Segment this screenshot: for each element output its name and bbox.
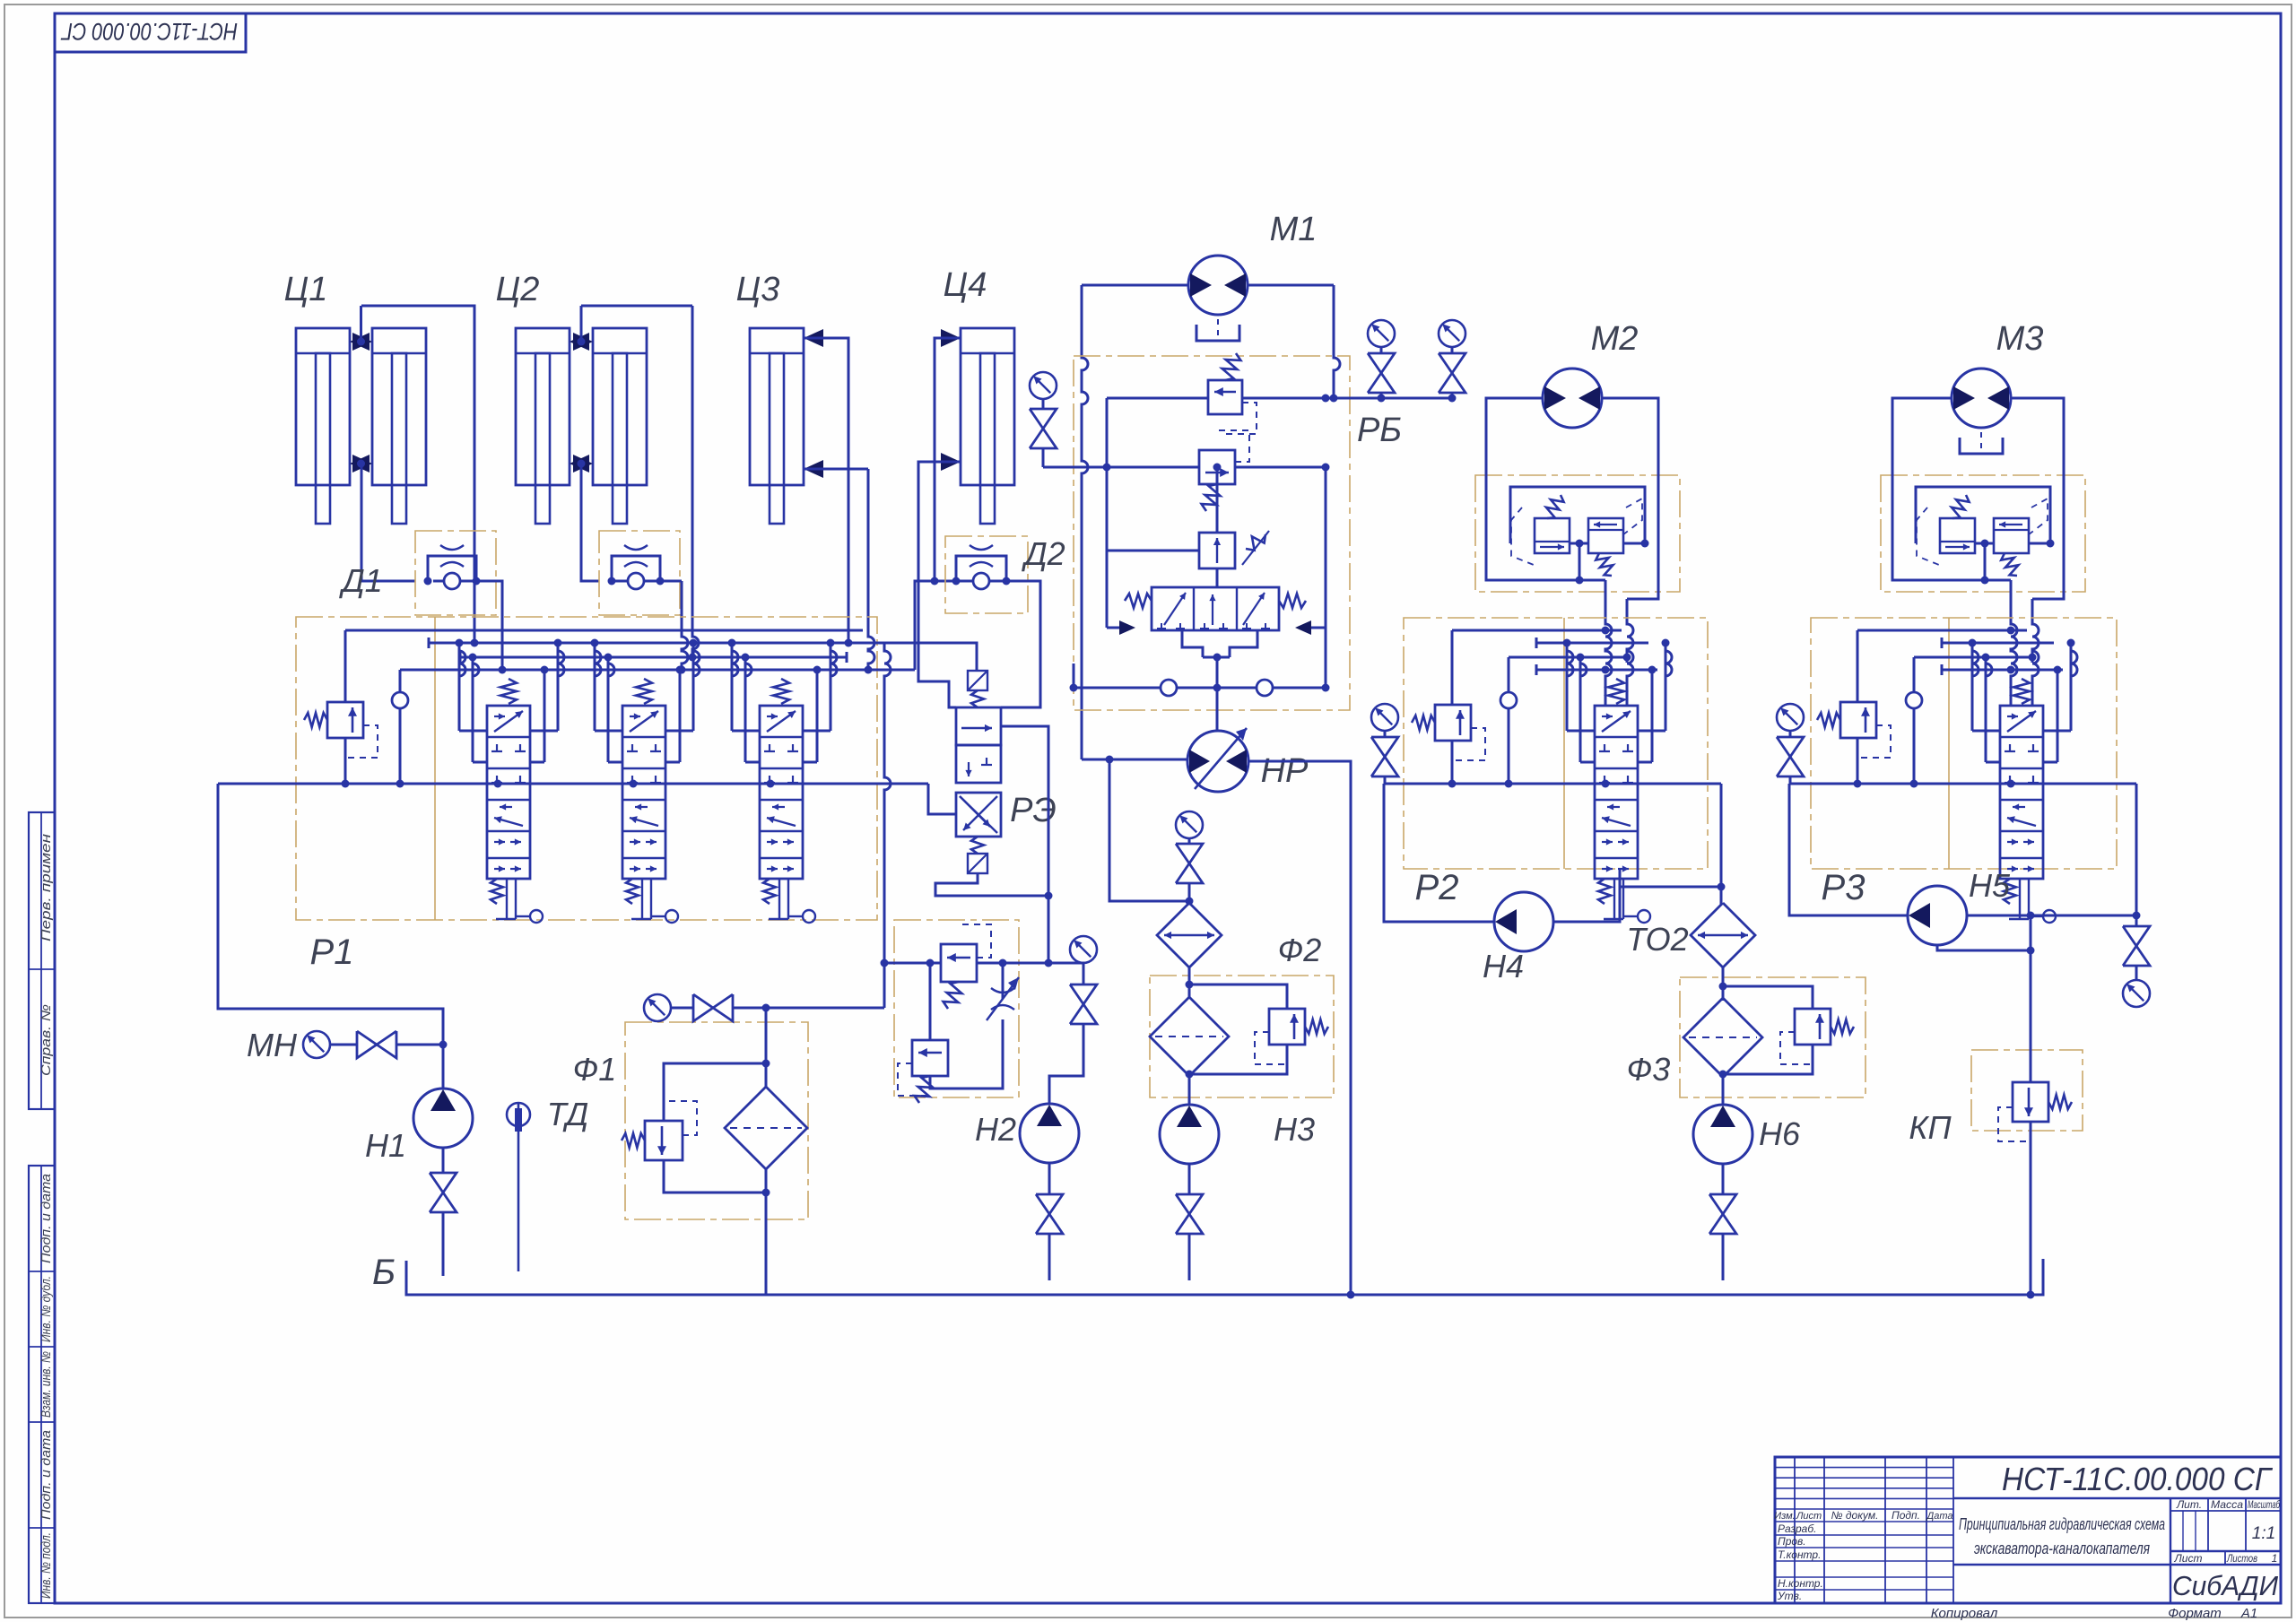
svg-text:ТД: ТД — [547, 1096, 589, 1132]
pump Н1 — [413, 1089, 473, 1148]
Р2 drain to ТО2 — [1620, 868, 1721, 887]
wire НР left loop — [1081, 759, 1083, 761]
bypass unit enclosure — [894, 920, 1019, 1097]
РБ valve springs — [1125, 594, 1152, 608]
wire Ц2 bottom to throttle-check — [581, 464, 599, 581]
gauge test point — [2123, 980, 2150, 1007]
Н6 suction valve — [1709, 1194, 1736, 1214]
block РБ enclosure — [1074, 356, 1350, 710]
wire М3 right loop — [2010, 398, 2064, 599]
spool stack Р3 — [2000, 706, 2043, 879]
svg-text:Дата: Дата — [1925, 1511, 1952, 1522]
РБ bottom check line — [1074, 687, 1161, 690]
М1 drain bracket — [1196, 325, 1239, 341]
svg-text:Ф3: Ф3 — [1627, 1051, 1671, 1088]
spool stack P1 section 2 — [622, 706, 665, 879]
РБ line 2 — [1043, 466, 1199, 469]
pump Н2 — [1020, 1104, 1079, 1163]
РБ 3-position valve — [1152, 587, 1279, 630]
РБ line 1 — [1107, 397, 1208, 400]
svg-text:Масса: Масса — [2211, 1498, 2243, 1511]
svg-text:Инв. № дубл.: Инв. № дубл. — [39, 1276, 54, 1342]
svg-text:Т.контр.: Т.контр. — [1778, 1548, 1821, 1561]
svg-text:КП: КП — [1909, 1109, 1952, 1146]
РБ left inner vertical — [1107, 398, 1199, 551]
svg-text:Н5: Н5 — [1969, 867, 2011, 904]
wire НР right to tank — [1248, 761, 1351, 1295]
bypass relief Ф1 — [664, 1063, 766, 1121]
gauge Р3 line — [1777, 704, 1804, 731]
svg-text:НСТ-11С.00.000 СГ: НСТ-11С.00.000 СГ — [60, 18, 238, 45]
wire H2 drain to Ф1 — [883, 963, 886, 1008]
svg-text:МН: МН — [247, 1027, 298, 1063]
svg-text:Масштаб: Масштаб — [2248, 1498, 2281, 1511]
drain line y1074 — [884, 962, 941, 965]
svg-text:Принципиальная гидравлическая: Принципиальная гидравлическая схема — [1959, 1515, 2165, 1533]
svg-text:№ докум.: № докум. — [1831, 1509, 1879, 1522]
svg-text:Ф2: Ф2 — [1278, 932, 1322, 968]
wire to P1 bus from Ц2 check — [680, 580, 682, 583]
cylinder Ц1 right barrel — [372, 328, 426, 485]
svg-text:Инв. № подл.: Инв. № подл. — [39, 1532, 54, 1599]
valve block Р3 enclosure — [1811, 618, 2117, 869]
cylinder Ц2 bottom port arrows — [570, 455, 589, 473]
side stamp group 2 — [29, 1166, 55, 1603]
svg-text:НСТ-11С.00.000 СГ: НСТ-11С.00.000 СГ — [2002, 1461, 2273, 1497]
shutoff РБ left — [1030, 409, 1057, 429]
wire L1 to РЭ top — [901, 643, 977, 671]
pump Н4 — [1494, 892, 1553, 951]
filter unit Ф3 enclosure — [1680, 977, 1865, 1097]
svg-text:Справ. №: Справ. № — [39, 1004, 54, 1076]
wire РЭ bottom drain — [935, 873, 1048, 963]
filter Ф1 diamond — [725, 1087, 807, 1169]
gauge top 2 — [1439, 320, 1465, 347]
svg-text:Б: Б — [372, 1253, 396, 1292]
svg-text:Р2: Р2 — [1415, 868, 1459, 907]
relief valve Р2 — [1435, 705, 1471, 741]
main pressure line P1 — [218, 783, 928, 785]
svg-text:Взам. инв. №: Взам. инв. № — [39, 1351, 54, 1418]
wire НР top from РБ — [1216, 704, 1219, 731]
svg-text:1:1: 1:1 — [2252, 1524, 2275, 1543]
wire Ц3 top port — [804, 338, 848, 630]
shutoff Р2 line — [1371, 737, 1398, 757]
shutoff top 2 — [1439, 353, 1465, 373]
wire РЭ right port drain — [1001, 726, 1048, 896]
svg-text:Н3: Н3 — [1274, 1111, 1315, 1148]
side stamp group 1 — [29, 812, 55, 1109]
pump Н5 — [1908, 886, 1967, 945]
drain from P1 L1 — [884, 643, 891, 963]
cylinder Ц2 top port arrows — [570, 333, 589, 351]
cylinder Ц1 bottom port arrows — [350, 455, 370, 473]
motor М2 — [1543, 369, 1602, 428]
thermometer ТД — [507, 1103, 530, 1126]
tank line Б — [406, 1259, 2043, 1295]
svg-text:Д2: Д2 — [1021, 535, 1065, 572]
svg-text:М3: М3 — [1996, 320, 2044, 358]
wire М2 right loop — [1601, 398, 1658, 599]
svg-text:А1: А1 — [2240, 1606, 2257, 1621]
svg-text:Ц3: Ц3 — [736, 271, 780, 308]
РБ valve pilot triangles — [1119, 620, 1135, 635]
heat exchanger ТО2 — [1691, 903, 1755, 967]
cylinder Ц2 right barrel — [593, 328, 647, 485]
gauge МН — [303, 1031, 330, 1058]
svg-text:Ц4: Ц4 — [944, 266, 987, 304]
P1 bus L1 — [428, 638, 430, 648]
svg-text:Формат: Формат — [2168, 1606, 2222, 1621]
spool stack P1 section 3 — [760, 706, 803, 879]
svg-text:Р3: Р3 — [1822, 868, 1865, 907]
filter Ф3 diamond — [1722, 967, 1725, 1001]
brake valve unit of М3 — [1881, 475, 2085, 592]
wire М3 loop to Р3 port A — [1985, 579, 2011, 582]
cylinder Ц3 — [750, 328, 804, 485]
spool stack Р2 — [1595, 706, 1638, 879]
svg-text:Утв.: Утв. — [1777, 1590, 1802, 1602]
shutoff Р3 line — [1777, 737, 1804, 757]
shutoff top 1 — [1368, 353, 1395, 373]
H3 suction valve — [1176, 1194, 1203, 1214]
svg-text:Д1: Д1 — [338, 562, 382, 599]
pump Н6 — [1693, 1105, 1752, 1164]
Р2 buses — [1452, 629, 1622, 632]
wire Н5 right / test point — [1966, 915, 2136, 917]
shutoff valve МН — [357, 1031, 377, 1058]
wire Д2 to РЭ right — [1001, 581, 1040, 707]
title block — [1775, 1457, 2281, 1603]
wire L3 to Д2 — [915, 581, 956, 670]
motor М3 — [1952, 369, 2011, 428]
svg-text:Н2: Н2 — [975, 1111, 1016, 1148]
gauge H2 — [1070, 936, 1097, 963]
wire H1 output — [218, 784, 443, 1089]
wire Р3 P to test point — [2135, 784, 2138, 915]
valve block Р1 enclosure — [296, 617, 877, 920]
wire Р3 drain lower — [1937, 945, 2031, 950]
filter unit Ф2 enclosure — [1150, 976, 1334, 1097]
svg-text:Н4: Н4 — [1483, 948, 1524, 984]
relief unit КП enclosure — [1971, 1050, 2083, 1131]
throttle-check under Ц2 — [599, 531, 680, 615]
svg-text:СибАДИ: СибАДИ — [2172, 1570, 2279, 1601]
bypass relief Ф3 — [1723, 986, 1813, 1009]
top-left stamp — [55, 13, 246, 52]
РЭ solenoid top — [968, 671, 987, 690]
wire Ц4 top drop — [935, 338, 961, 581]
wire М1 left loop — [1082, 284, 1188, 287]
svg-text:1: 1 — [2272, 1552, 2278, 1565]
filter unit Ф1 enclosure — [625, 1022, 808, 1219]
svg-text:Н1: Н1 — [365, 1127, 406, 1164]
wire М1 right — [1248, 284, 1334, 287]
shutoff НР line — [1176, 844, 1203, 863]
gauge top 1 — [1368, 320, 1395, 347]
svg-text:Листов: Листов — [2226, 1552, 2257, 1565]
svg-text:Изм.: Изм. — [1774, 1511, 1795, 1522]
wire Ц1 top to P1 drop — [361, 306, 474, 643]
adjustable throttle — [991, 988, 1014, 993]
wire М2 left loop — [1486, 398, 1579, 580]
М3 drain bracket — [1960, 438, 2003, 454]
valve block Р2 enclosure — [1404, 618, 1708, 869]
gauge Ф1 line — [644, 994, 671, 1021]
P1 bus L0 — [345, 629, 863, 632]
cylinder Ц4 — [961, 328, 1014, 485]
svg-text:Н6: Н6 — [1759, 1115, 1801, 1152]
РЭ spring bottom — [971, 837, 984, 854]
motor М1 — [1188, 256, 1248, 315]
svg-text:М2: М2 — [1591, 320, 1639, 358]
P1 bus L2 — [459, 652, 462, 663]
svg-text:ТО2: ТО2 — [1626, 921, 1688, 958]
svg-text:Разраб.: Разраб. — [1778, 1522, 1816, 1535]
gauge Р2 line — [1371, 704, 1398, 731]
wire М3 left loop — [1892, 398, 1985, 580]
svg-text:экскаватора-каналокапателя: экскаватора-каналокапателя — [1974, 1540, 2150, 1557]
cylinder Ц2 left barrel — [516, 328, 570, 485]
cylinder Ц1 top port arrows — [350, 333, 370, 351]
svg-text:Лит.: Лит. — [2176, 1498, 2202, 1511]
pressure line Р2 — [1385, 783, 1721, 785]
wire Д1 to P1 bus — [484, 581, 502, 670]
check valve Р2 — [1500, 692, 1517, 708]
wire Н4 output — [1384, 784, 1495, 922]
relief valve КП — [2030, 915, 2032, 1082]
РБ relief 1 — [1208, 380, 1242, 414]
svg-text:Подп. и дата: Подп. и дата — [39, 1174, 54, 1263]
svg-text:Р1: Р1 — [310, 932, 354, 972]
check valve Р3 — [1906, 692, 1922, 708]
svg-text:Лист: Лист — [2174, 1552, 2203, 1565]
РБ valve bottom ports — [1182, 630, 1203, 657]
wire М2 loop to Р2 port A — [1579, 579, 1605, 582]
svg-text:Копировал: Копировал — [1931, 1606, 1998, 1621]
bypass relief Ф2 — [1189, 984, 1287, 1009]
Р3 buses — [1857, 629, 2027, 632]
wire P line to РЭ — [928, 784, 956, 814]
svg-text:Подп. и дата: Подп. и дата — [39, 1430, 54, 1520]
svg-text:Ц1: Ц1 — [284, 271, 328, 308]
wire Р2 to ТО2 — [1720, 784, 1723, 905]
wire Н5 output — [1789, 784, 1909, 915]
shutoff Ф1 line — [693, 994, 713, 1021]
relief bypass lower — [929, 963, 932, 1040]
heat exchanger ТО1 — [1157, 903, 1222, 967]
throttle-check Д2 — [945, 536, 1028, 613]
H1 suction + valve — [442, 1148, 445, 1173]
check valve P1 — [392, 692, 408, 708]
shutoff test point — [2123, 926, 2150, 946]
РБ relief 2 — [1199, 450, 1235, 484]
РБ valve center ports — [1216, 568, 1219, 587]
РБ flow control valve — [1199, 533, 1235, 568]
svg-text:Пров.: Пров. — [1778, 1535, 1806, 1548]
brake valve unit of М2 — [1475, 475, 1680, 592]
variable pump НР — [1187, 731, 1248, 792]
svg-text:Ф1: Ф1 — [573, 1051, 617, 1088]
relief valve P1 — [327, 702, 363, 738]
throttle-check Д1 — [415, 531, 496, 615]
wire Ц2 top to P1 drop — [581, 305, 692, 308]
pump Н3 — [1160, 1105, 1219, 1164]
H2 suction valve — [1036, 1194, 1063, 1214]
relief valve Р3 — [1840, 702, 1876, 738]
svg-text:НР: НР — [1261, 752, 1309, 790]
wire Ц3 bottom port — [804, 468, 868, 471]
wire Н4 right — [1552, 887, 1620, 922]
svg-text:Перв. примен: Перв. примен — [39, 834, 54, 941]
svg-text:Н.контр.: Н.контр. — [1778, 1577, 1823, 1590]
svg-text:М1: М1 — [1270, 211, 1318, 248]
svg-text:Лист: Лист — [1796, 1511, 1822, 1522]
valve РЭ — [956, 707, 1001, 745]
svg-text:РБ: РБ — [1357, 412, 1402, 449]
svg-text:Подп.: Подп. — [1892, 1509, 1920, 1522]
wire Ц4 bottom drop — [918, 462, 961, 707]
wire Ц1 bottom to Д1 — [361, 464, 415, 581]
gauge РБ left — [1030, 372, 1057, 399]
spool stack P1 section 1 — [487, 706, 530, 879]
filter Ф2 diamond — [1188, 967, 1191, 999]
P1 bus L3 — [400, 669, 915, 672]
pressure line Р3 — [1790, 783, 2136, 785]
РБ line1 extension right — [1326, 397, 1452, 400]
relief bypass upper — [941, 944, 977, 982]
svg-text:Ц2: Ц2 — [496, 271, 540, 308]
gauge НР line — [1176, 811, 1203, 838]
wire НР flushing drop — [1109, 759, 1189, 901]
cylinder Ц1 left barrel — [296, 328, 350, 485]
shutoff H2 — [1070, 984, 1097, 1004]
